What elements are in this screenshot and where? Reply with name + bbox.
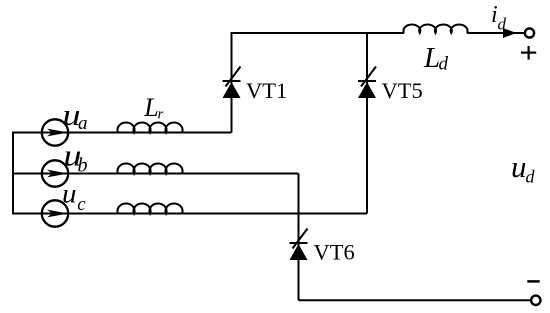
plus sign (521, 46, 536, 60)
wire phase b (12, 173, 299, 175)
voltage source u_a (42, 119, 68, 145)
wire VT1 branch vertical (231, 33, 233, 133)
svg-text:VT5: VT5 (382, 78, 423, 103)
node output terminal - (531, 296, 540, 305)
inductor phase c (118, 203, 183, 213)
wire bottom negative rail (299, 299, 531, 301)
svg-text:d: d (439, 54, 449, 75)
svg-text:d: d (526, 167, 536, 187)
minus sign (527, 280, 539, 283)
svg-text:c: c (77, 194, 86, 215)
wire left neutral bus (12, 133, 14, 215)
svg-text:r: r (158, 107, 164, 123)
thyristor VT6 (290, 229, 308, 261)
wire top positive rail (231, 32, 405, 34)
svg-text:b: b (78, 155, 88, 177)
inductor Ld (403, 25, 467, 33)
svg-text:u: u (62, 178, 77, 209)
svg-text:VT1: VT1 (246, 78, 287, 103)
wire phase c (12, 213, 367, 215)
svg-text:VT6: VT6 (314, 240, 355, 265)
wire VT6 branch vertical (298, 174, 300, 301)
wire output to terminal (467, 32, 525, 34)
svg-text:L: L (143, 93, 158, 122)
wire VT5 branch vertical (366, 33, 368, 214)
inductor Lr phase a (118, 122, 183, 132)
wire phase a (12, 132, 232, 134)
thyristor VT1 (223, 67, 241, 99)
voltage source u_c (42, 200, 68, 226)
node output terminal + (525, 28, 534, 37)
svg-text:d: d (498, 15, 507, 34)
svg-text:a: a (78, 113, 88, 134)
arrow i_d on output wire (503, 28, 517, 38)
svg-text:u: u (511, 149, 527, 184)
thyristor VT5 (358, 67, 376, 99)
inductor phase b (118, 163, 183, 173)
voltage source u_b (42, 160, 68, 186)
